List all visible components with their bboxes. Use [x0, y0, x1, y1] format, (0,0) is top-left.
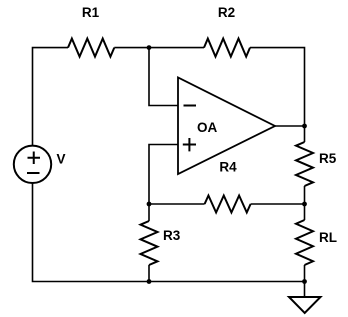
resistor R3 [141, 221, 181, 265]
wire: left rail from top-left corner down to V source top [33, 48, 69, 146]
svg-text:OA: OA [197, 120, 218, 135]
svg-text:R1: R1 [82, 5, 100, 20]
svg-text:R4: R4 [219, 160, 237, 175]
resistor R5 [296, 142, 337, 186]
wire: left rail below V source, bottom wire to right rail [33, 183, 305, 282]
svg-text:R2: R2 [218, 5, 235, 20]
wire: non-inverting input from op-amp down to R3/R4 node [149, 145, 178, 205]
svg-text:V: V [57, 152, 66, 167]
op-amp U1 (OA) [178, 78, 275, 175]
voltage source V [14, 146, 66, 183]
wire: op-amp output to right rail [275, 125, 305, 127]
wire: R4 left lead [149, 203, 205, 205]
wire: top-right corner from R2 down right rail to R5 [250, 48, 305, 142]
node: op-amp output junction [302, 124, 307, 129]
wire: R3 top lead [148, 204, 150, 221]
wire: right rail between R5 and RL [304, 186, 306, 220]
svg-text:R5: R5 [319, 151, 337, 166]
node: R3/R4 non-inverting junction [147, 202, 152, 207]
resistor RL [296, 220, 337, 265]
ground [289, 297, 321, 313]
resistor R2 [204, 5, 250, 57]
svg-text:R3: R3 [163, 228, 181, 243]
node: bottom-right ground junction [302, 279, 307, 284]
node: R3 bottom junction [147, 279, 152, 284]
wire: inverting input from top node down into op-amp [149, 48, 178, 106]
resistor R1 [68, 5, 114, 57]
node: junction on top wire (inverting input tap) [147, 45, 152, 50]
svg-text:RL: RL [319, 230, 337, 245]
wire: R4 right lead [251, 203, 305, 205]
node: R4/R5/RL junction [302, 202, 307, 207]
wire: right rail below RL down to ground [304, 265, 306, 297]
resistor R4 [205, 160, 251, 213]
wire: R3 bottom lead [148, 265, 150, 282]
wire: top middle segment between R1 and R2 [114, 47, 204, 49]
